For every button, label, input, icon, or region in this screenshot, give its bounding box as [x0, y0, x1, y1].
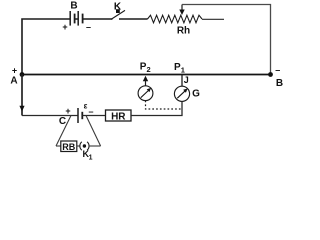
- wire: battery to key K: [83, 18, 113, 20]
- svg-text:–: –: [86, 22, 91, 32]
- svg-text:Rh: Rh: [177, 26, 190, 37]
- cell C plate (short, -): [81, 112, 83, 119]
- svg-text:K: K: [114, 2, 122, 13]
- wire: bottom loop left stub: [56, 145, 61, 147]
- node A (junction dot): [20, 72, 25, 77]
- wire: key K1 to bottom-right corner: [89, 145, 101, 147]
- rheostat Rh zigzag: [148, 15, 203, 23]
- key K1 (tap key: parentheses with dot): [80, 142, 82, 150]
- svg-text:–: –: [275, 65, 280, 75]
- wire: key K to rheostat: [119, 18, 148, 20]
- node B (junction dot): [268, 72, 273, 77]
- key K knob (filled square): [116, 9, 120, 13]
- svg-text:G: G: [192, 89, 200, 100]
- wire: battery inter-cell link: [75, 18, 79, 20]
- wire: bottom horizontal to cell C: [22, 115, 78, 117]
- wire: potentiometer wire A to B: [22, 74, 271, 76]
- wire: RB to key K1: [77, 145, 80, 147]
- wire: HR to jockey junction: [131, 102, 182, 116]
- svg-text:ε: ε: [84, 102, 88, 111]
- svg-text:B: B: [70, 1, 77, 12]
- galvanometer G (circle with needle): [174, 86, 189, 101]
- svg-text:+: +: [65, 106, 70, 116]
- wire: triangle right slant: [86, 116, 101, 147]
- svg-text:B: B: [276, 78, 283, 89]
- svg-text:A: A: [10, 76, 17, 87]
- wire: rheostat right tail (dead end): [202, 18, 224, 20]
- wire: wiper to top-right corner and down to B: [182, 5, 271, 75]
- battery B plate 1 (long): [69, 11, 71, 26]
- resistance box RB: [61, 141, 77, 152]
- wire: top-left horizontal from corner to battery: [22, 19, 70, 116]
- battery B plate 3 (long): [77, 11, 79, 26]
- cell C plate (long, +): [77, 108, 79, 123]
- resistor HR (box): [106, 110, 132, 121]
- battery B plate 4 (short): [82, 14, 84, 24]
- wire: left vertical A down to cell loop, with current arrow: [21, 75, 23, 116]
- svg-text:1: 1: [181, 66, 185, 75]
- wire: cell to HR box: [82, 115, 105, 117]
- svg-text:RB: RB: [62, 142, 75, 152]
- key K blade (open switch): [111, 10, 125, 19]
- svg-text:+: +: [12, 66, 17, 76]
- svg-text:J: J: [184, 75, 189, 85]
- galvanometer at P2 (alternate position, circle with needle): [138, 86, 153, 101]
- rheostat wiper arrow (points down onto zigzag): [181, 5, 183, 11]
- svg-text:HR: HR: [111, 112, 126, 123]
- svg-text:+: +: [62, 22, 67, 32]
- wire: triangle left slant (cell to RB loop): [56, 116, 71, 147]
- wire: dotted alternate connection from P2 galvanometer to junction: [146, 101, 183, 109]
- svg-text:2: 2: [147, 65, 151, 74]
- svg-text:1: 1: [89, 154, 93, 161]
- svg-text:C: C: [59, 116, 66, 127]
- battery B plate 2 (short): [74, 14, 76, 24]
- jockey at P2: arrow touching wire AB: [143, 76, 148, 82]
- wire: jockey J stem from wire AB down to galvanometer G: [181, 75, 183, 87]
